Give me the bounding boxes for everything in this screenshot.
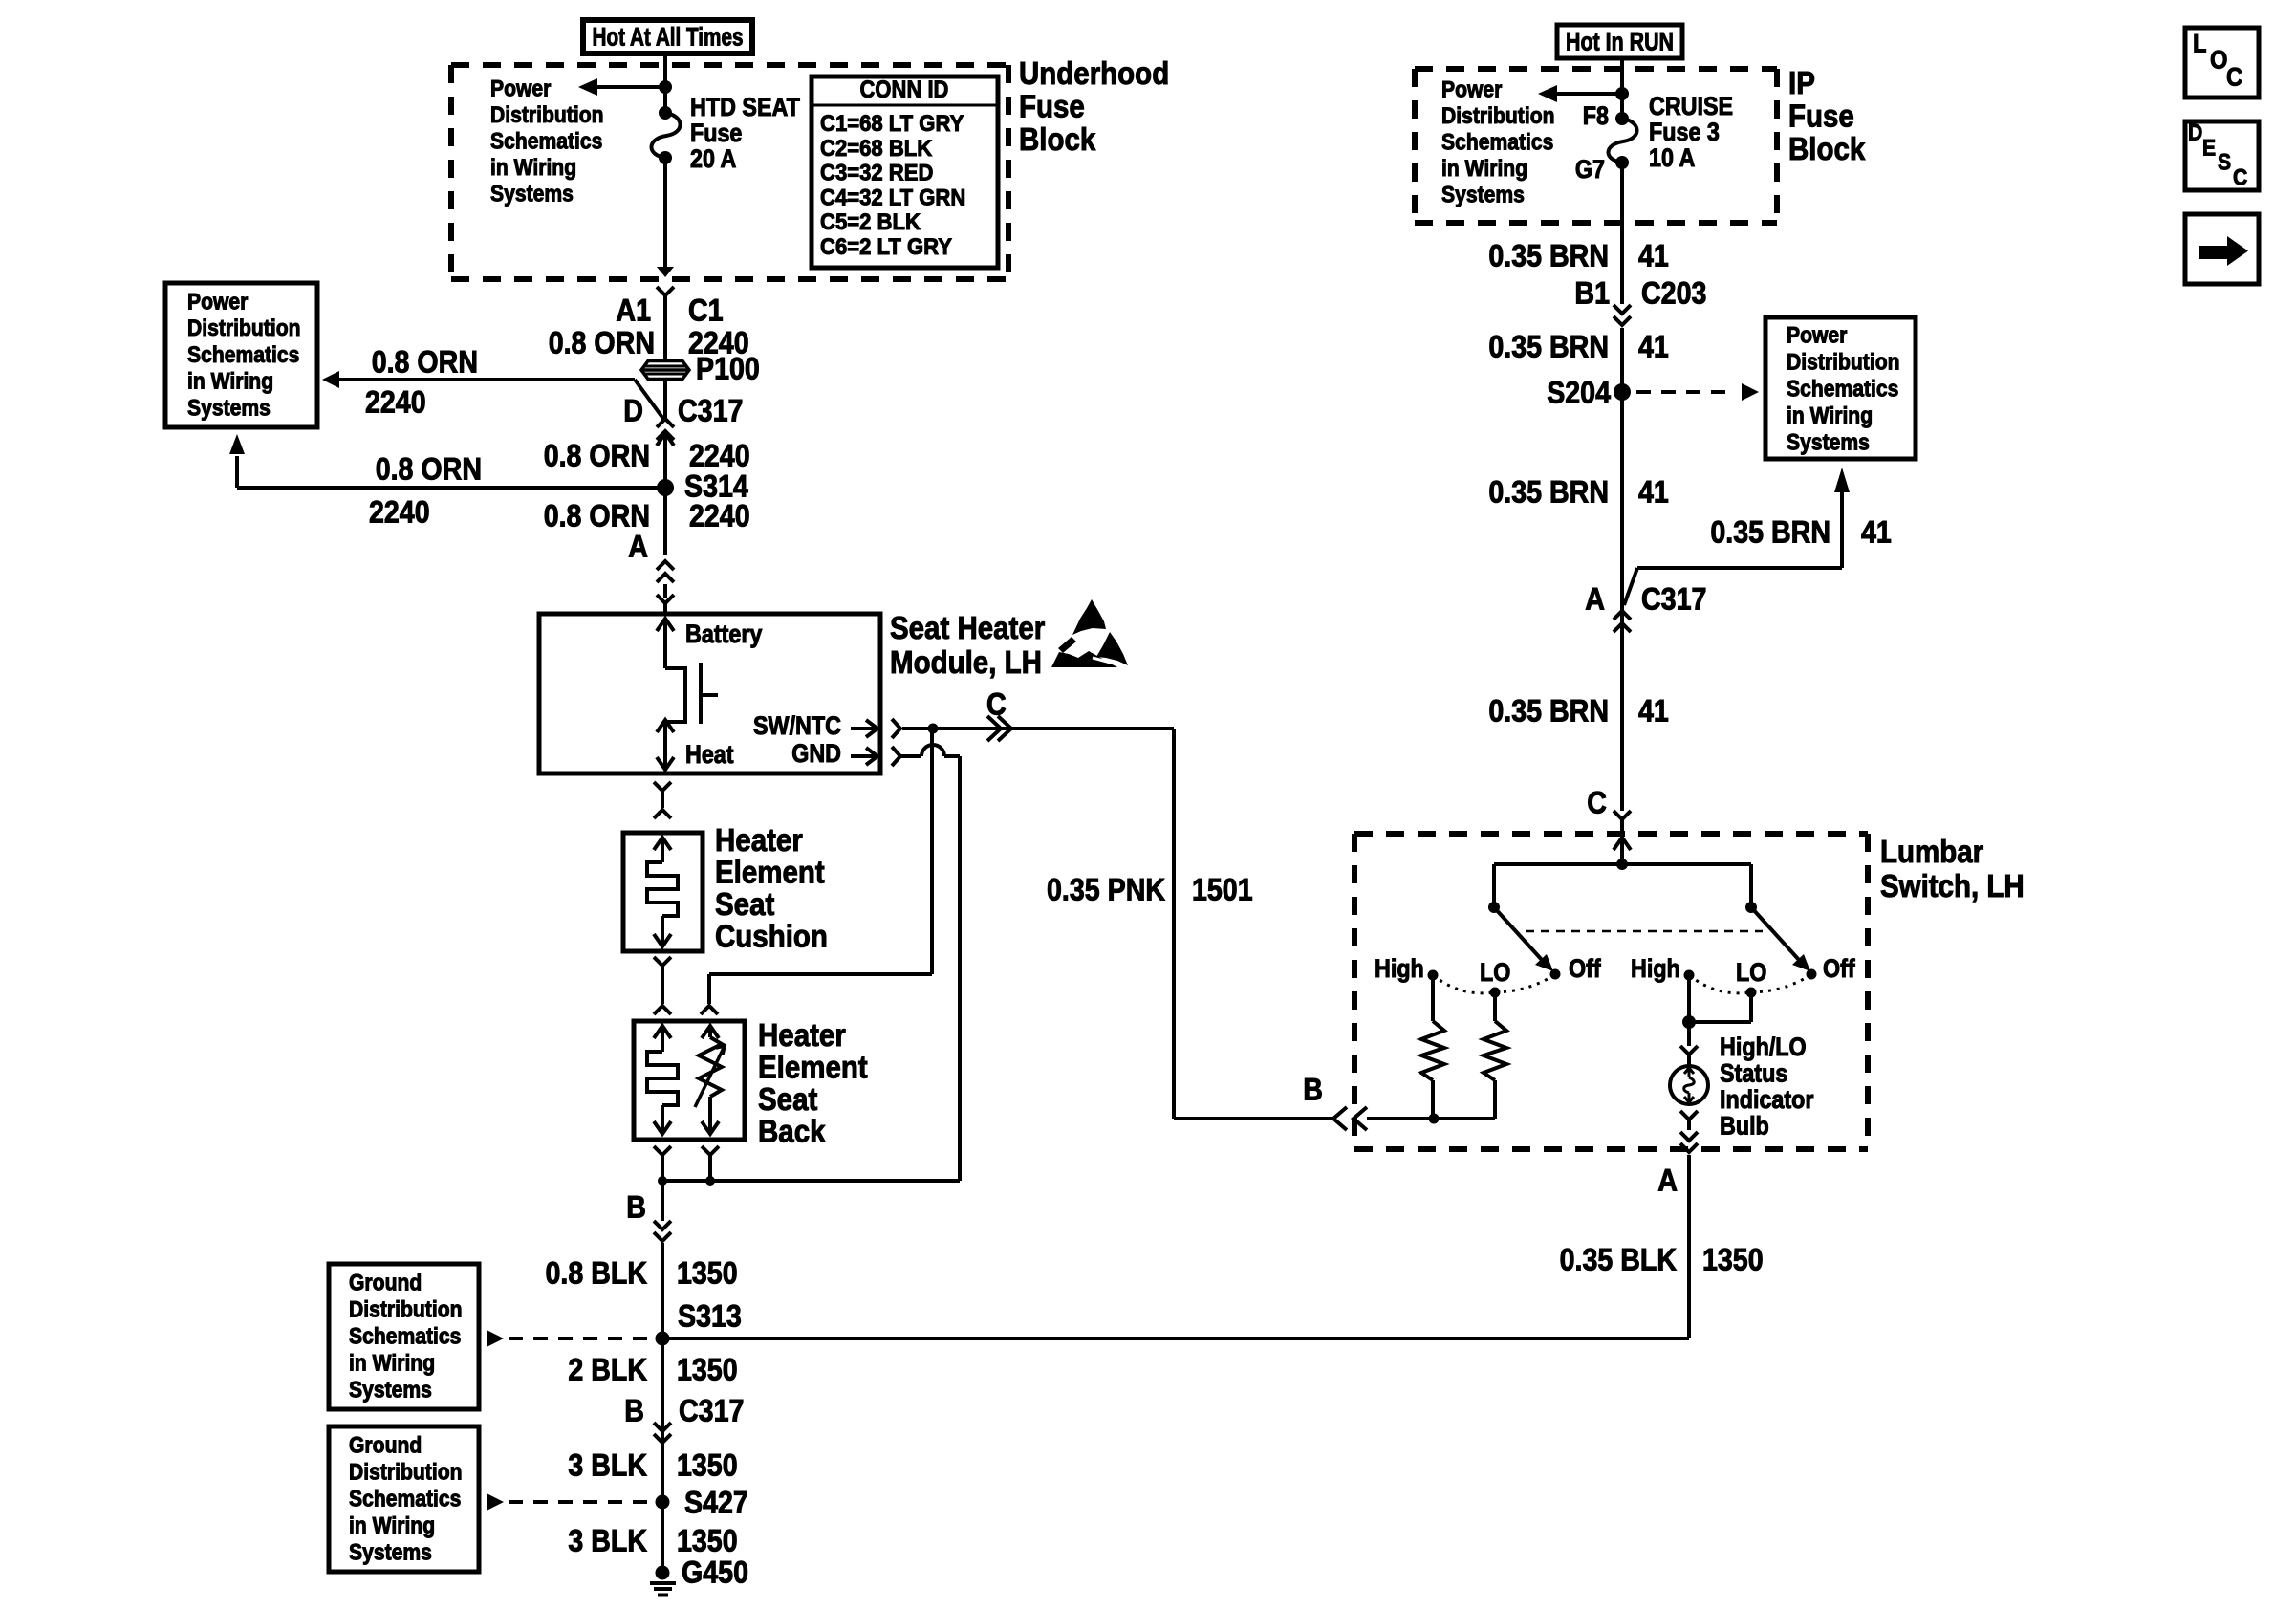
svg-text:2240: 2240 [689,438,750,472]
svg-text:Seat: Seat [758,1082,817,1118]
svg-text:1350: 1350 [1702,1242,1764,1276]
svg-text:E: E [2202,136,2216,162]
svg-text:Schematics: Schematics [187,342,299,368]
svg-text:Power: Power [1441,77,1502,103]
svg-text:CRUISE: CRUISE [1649,92,1733,120]
svg-text:Ground: Ground [349,1271,422,1296]
svg-text:Distribution: Distribution [187,315,301,341]
svg-text:Power: Power [187,290,248,315]
svg-text:Lumbar: Lumbar [1880,835,1983,870]
svg-text:Indicator: Indicator [1720,1085,1814,1114]
svg-text:41: 41 [1861,514,1892,549]
svg-text:Fuse: Fuse [1019,90,1085,125]
svg-text:D: D [2188,120,2202,146]
svg-text:Heater: Heater [715,823,803,859]
svg-text:0.8 ORN: 0.8 ORN [372,344,478,379]
svg-text:41: 41 [1638,329,1669,363]
svg-text:in Wiring: in Wiring [349,1513,435,1539]
svg-text:C317: C317 [678,393,743,427]
svg-text:Schematics: Schematics [1441,130,1553,156]
svg-text:Battery: Battery [685,620,763,648]
svg-text:2240: 2240 [689,498,750,533]
svg-text:Off: Off [1569,954,1601,983]
svg-text:Distribution: Distribution [349,1460,463,1486]
svg-text:Distribution: Distribution [349,1297,463,1323]
svg-text:C1: C1 [688,293,724,327]
svg-text:Status: Status [1720,1059,1787,1088]
svg-text:3 BLK: 3 BLK [568,1447,647,1482]
svg-text:C: C [1587,785,1607,819]
svg-text:Bulb: Bulb [1720,1112,1769,1141]
svg-text:Power: Power [490,76,551,102]
svg-text:Heat: Heat [685,740,734,769]
svg-text:Switch, LH: Switch, LH [1880,869,2025,904]
svg-text:Fuse 3: Fuse 3 [1649,118,1720,146]
svg-text:Fuse: Fuse [690,119,742,147]
svg-text:Systems: Systems [349,1378,432,1403]
svg-text:F8: F8 [1583,101,1609,130]
svg-text:in Wiring: in Wiring [187,369,273,395]
svg-text:HTD SEAT: HTD SEAT [690,93,800,121]
svg-text:0.35 BRN: 0.35 BRN [1488,474,1609,509]
svg-text:Heater: Heater [758,1018,846,1054]
svg-text:C: C [2233,165,2247,191]
svg-text:L: L [2193,30,2207,58]
svg-text:Block: Block [1788,132,1866,167]
svg-text:20 A: 20 A [690,144,736,173]
svg-text:C: C [2226,63,2242,92]
svg-text:B: B [626,1189,646,1224]
svg-text:2 BLK: 2 BLK [568,1352,647,1386]
svg-text:S: S [2218,150,2231,176]
svg-text:C317: C317 [1641,581,1706,616]
svg-text:1350: 1350 [677,1447,738,1482]
svg-text:Systems: Systems [187,395,271,421]
svg-text:C5=2 BLK: C5=2 BLK [820,209,921,235]
svg-text:10 A: 10 A [1649,143,1695,172]
svg-text:Systems: Systems [1787,430,1870,456]
svg-text:Systems: Systems [349,1540,432,1566]
svg-text:C1=68 LT GRY: C1=68 LT GRY [820,111,964,137]
svg-text:Off: Off [1823,954,1855,983]
svg-text:A: A [1657,1163,1678,1197]
svg-text:CONN ID: CONN ID [860,76,949,103]
svg-text:G7: G7 [1575,155,1605,184]
svg-text:Back: Back [758,1115,826,1150]
svg-text:Schematics: Schematics [349,1324,461,1350]
svg-text:Distribution: Distribution [1787,350,1900,376]
svg-text:1501: 1501 [1192,872,1253,906]
svg-text:Systems: Systems [1441,183,1525,208]
svg-text:Hot At All Times: Hot At All Times [593,23,744,52]
svg-text:S204: S204 [1547,375,1611,409]
svg-text:Element: Element [758,1051,868,1086]
svg-text:C6=2 LT GRY: C6=2 LT GRY [820,234,952,260]
svg-text:in Wiring: in Wiring [1441,156,1527,182]
svg-text:0.35 BRN: 0.35 BRN [1488,238,1609,272]
svg-text:C2=68 BLK: C2=68 BLK [820,136,933,162]
svg-text:0.8 BLK: 0.8 BLK [546,1255,648,1290]
svg-text:0.8 ORN: 0.8 ORN [544,498,650,533]
svg-text:Schematics: Schematics [1787,377,1898,402]
svg-text:C317: C317 [679,1393,744,1427]
svg-text:Distribution: Distribution [490,102,604,128]
svg-text:0.35 PNK: 0.35 PNK [1047,872,1165,906]
svg-text:LO: LO [1736,958,1766,987]
svg-text:0.8 ORN: 0.8 ORN [376,451,482,486]
svg-text:High/LO: High/LO [1720,1033,1807,1061]
svg-text:41: 41 [1638,238,1669,272]
svg-text:A: A [1585,581,1605,616]
svg-text:P100: P100 [696,351,760,385]
svg-text:0.8 ORN: 0.8 ORN [544,438,650,472]
svg-text:S427: S427 [684,1485,748,1519]
svg-text:Seat: Seat [715,887,774,923]
svg-text:2240: 2240 [369,494,430,529]
svg-text:1350: 1350 [677,1523,738,1557]
svg-text:C4=32 LT GRN: C4=32 LT GRN [820,185,965,210]
svg-text:B: B [624,1393,644,1427]
svg-text:D: D [623,393,643,427]
svg-text:Cushion: Cushion [715,920,828,955]
svg-text:1350: 1350 [677,1255,738,1290]
svg-text:LO: LO [1480,958,1510,987]
svg-text:Block: Block [1019,122,1096,158]
svg-text:Schematics: Schematics [349,1487,461,1512]
svg-text:B: B [1303,1072,1323,1106]
svg-text:Element: Element [715,856,825,891]
svg-text:GND: GND [791,739,841,768]
svg-text:Underhood: Underhood [1019,56,1169,92]
svg-text:IP: IP [1788,66,1815,101]
svg-text:Hot In RUN: Hot In RUN [1566,28,1674,56]
svg-text:in Wiring: in Wiring [490,155,576,181]
svg-text:S313: S313 [678,1298,742,1333]
svg-text:1350: 1350 [677,1352,738,1386]
svg-text:High: High [1375,954,1424,983]
svg-text:B1: B1 [1574,275,1610,310]
svg-text:O: O [2210,46,2228,75]
svg-text:Seat Heater: Seat Heater [890,611,1045,646]
svg-text:0.35 BRN: 0.35 BRN [1488,693,1609,728]
svg-text:0.35 BRN: 0.35 BRN [1710,514,1830,549]
svg-text:A: A [628,529,648,563]
svg-text:C203: C203 [1641,275,1706,310]
svg-text:Distribution: Distribution [1441,103,1555,129]
svg-text:High: High [1631,954,1680,983]
svg-text:in Wiring: in Wiring [1787,403,1873,429]
svg-text:G450: G450 [682,1555,748,1589]
svg-text:Fuse: Fuse [1788,99,1854,135]
svg-text:C3=32 RED: C3=32 RED [820,161,933,186]
svg-text:in Wiring: in Wiring [349,1351,435,1377]
svg-text:41: 41 [1638,474,1669,509]
svg-text:0.35 BRN: 0.35 BRN [1488,329,1609,363]
svg-text:Power: Power [1787,323,1847,349]
svg-text:0.8 ORN: 0.8 ORN [549,325,655,359]
svg-text:2240: 2240 [365,384,426,419]
svg-text:Systems: Systems [490,182,574,207]
svg-text:41: 41 [1638,693,1669,728]
svg-text:Ground: Ground [349,1433,422,1459]
svg-text:SW/NTC: SW/NTC [753,711,841,740]
svg-text:0.35 BLK: 0.35 BLK [1560,1242,1678,1276]
svg-text:Module, LH: Module, LH [890,645,1042,681]
svg-text:A1: A1 [616,293,651,327]
svg-text:Schematics: Schematics [490,129,602,155]
svg-text:3 BLK: 3 BLK [568,1523,647,1557]
